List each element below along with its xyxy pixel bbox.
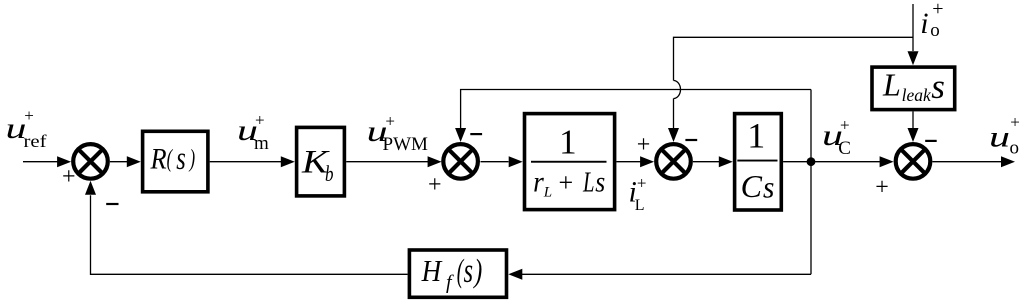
wire: block to S3 [616,156,654,167]
svg-text:+: + [637,173,647,192]
sign - at S4 top input [925,140,937,142]
svg-text:+: + [637,132,651,158]
svg-text:1: 1 [747,115,765,155]
svg-text:+: + [24,106,34,125]
signal label u_PWM [367,112,428,156]
svg-text:r: r [533,166,544,199]
svg-text:L: L [882,67,901,103]
svg-text:s: s [931,67,945,106]
svg-text:+: + [932,0,943,20]
wire: S2 to block 1/(rL+Ls) [481,156,523,167]
signal label i_o [920,0,943,41]
svg-text:i: i [920,7,928,40]
svg-text:o: o [1010,138,1020,159]
block L_leak s [872,67,955,110]
svg-text:H: H [421,253,443,288]
svg-text:ref: ref [24,131,47,151]
svg-text:s: s [176,141,186,177]
svg-text:L: L [582,167,594,199]
svg-text:o: o [930,20,940,41]
wire: feedback from node into H_f(s) [508,269,811,280]
wire: S1 to R(s) [110,156,141,167]
block R(s) [143,131,208,192]
block 1/(r_L+Ls) [525,114,615,210]
sign - at S2 top input [470,133,482,135]
svg-text:): ) [188,145,195,172]
svg-text:+: + [840,115,850,134]
svg-text:R: R [150,143,167,176]
wire: 1/Cs to S4 [783,156,894,167]
svg-text:L: L [635,197,645,214]
wire: K_b to S2 [346,156,441,167]
summing junction S3 [656,144,691,179]
svg-text:u: u [989,121,1010,154]
svg-text:1: 1 [559,123,577,162]
svg-text:+: + [385,112,395,131]
svg-text:PWM: PWM [383,134,429,155]
signal label u_ref [6,106,47,151]
signal label u_m [237,111,269,154]
block H_f(s) [409,250,506,297]
sign - at S3 top input [685,139,697,141]
wire: i_o down into L_leak block [908,4,919,65]
svg-text:+: + [875,175,889,201]
node u_C junction dot [807,157,816,166]
wire: vertical from u_C node up to y=89.5 corner and down to feedback line [810,90,812,275]
svg-text:): ) [473,253,482,289]
svg-text:+: + [255,111,265,130]
summing junction S1 [73,144,108,179]
svg-text:+: + [428,172,442,198]
wire: S3 to 1/Cs [693,156,733,167]
summing junction S2 [443,144,478,179]
signal label u_o [989,113,1020,159]
sign - at S1 feedback input [106,203,118,205]
svg-text:s: s [464,251,473,290]
wire: input to summing junction S1 [23,156,71,167]
signal label i_L [629,173,647,214]
svg-text:C: C [741,168,763,204]
svg-text:leak: leak [902,85,932,105]
summing junction S4 [896,144,931,179]
block K_b [297,127,345,195]
svg-text:s: s [763,169,774,204]
svg-text:m: m [254,133,269,154]
svg-text:C: C [838,138,851,159]
svg-text:s: s [595,166,605,199]
wire: i_o branch down into S3 with hop over u_C line [668,37,913,142]
wire: H_f(s) to S1 [85,181,408,274]
wire: S4 to output [933,156,1016,167]
block 1/Cs [735,114,782,210]
svg-text:+: + [559,168,574,197]
wire: L_leak to S4 [908,111,919,142]
svg-text:+: + [1010,113,1020,132]
svg-text:b: b [325,161,334,186]
svg-text:L: L [543,185,552,201]
wire: u_C feedback line into S2 top [455,90,811,143]
wire: R(s) to K_b [210,156,295,167]
svg-text:+: + [62,164,76,190]
signal label u_C [822,115,851,159]
